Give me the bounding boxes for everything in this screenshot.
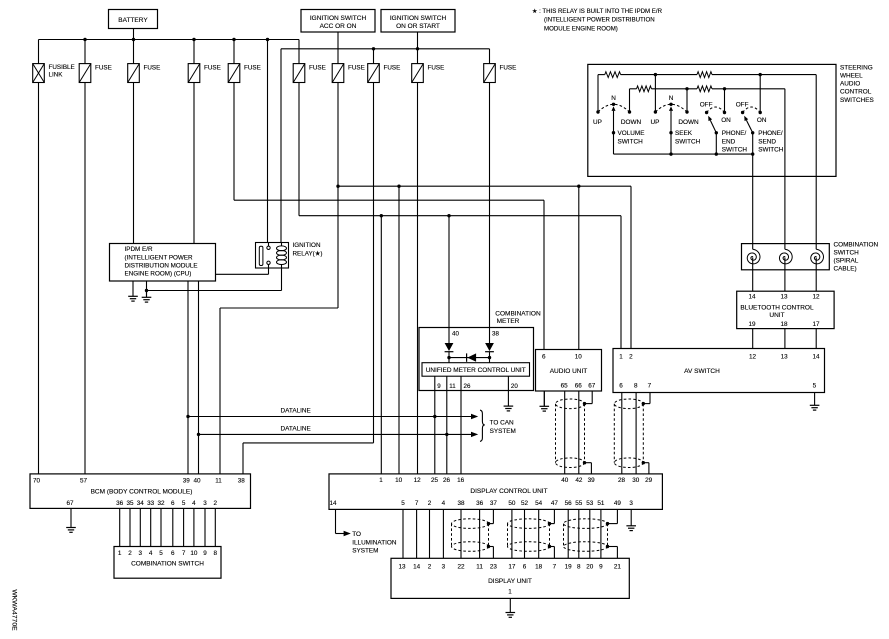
wire fuse F6 down: [298, 83, 300, 216]
wire row2 to phone-end ON: [724, 89, 726, 113]
ignition switch ACC box: [301, 10, 375, 33]
svg-text:DATALINE: DATALINE: [281, 426, 311, 433]
svg-text:2: 2: [629, 354, 633, 361]
svg-text:20: 20: [511, 383, 518, 390]
AV shield sides: [613, 404, 615, 463]
wire F7 feeder horizontal: [338, 185, 631, 187]
display unit box: [391, 558, 629, 598]
svg-text:53: 53: [586, 500, 594, 507]
shield cable 1 top ellipse: [452, 519, 489, 529]
svg-text:6: 6: [171, 550, 175, 557]
relay pin circle top: [267, 246, 270, 249]
svg-text:SWITCH: SWITCH: [834, 249, 860, 256]
node AV shield top: [642, 402, 645, 405]
wire spiral3 to bluetooth pin12: [815, 258, 817, 292]
wire row1 to seek up: [654, 75, 656, 112]
svg-text:(SPIRAL: (SPIRAL: [834, 257, 859, 264]
wire common down: [715, 133, 717, 154]
svg-text:DOWN: DOWN: [621, 119, 642, 126]
dataline1 arrow: [471, 414, 478, 419]
wire DCU49 to shield3: [616, 509, 618, 523]
svg-text:SYSTEM: SYSTEM: [490, 428, 516, 435]
svg-text:LINK: LINK: [49, 71, 64, 78]
svg-text:IGNITION: IGNITION: [293, 242, 321, 249]
svg-text:6: 6: [542, 354, 546, 361]
svg-text:42: 42: [575, 477, 583, 484]
svg-text:UP: UP: [593, 119, 602, 126]
diode D1: [445, 343, 454, 351]
svg-text:40: 40: [561, 477, 569, 484]
wire accbus to fuse F8: [373, 49, 375, 64]
svg-text:11: 11: [476, 563, 483, 570]
switch row2 wire: [630, 88, 637, 90]
fuse: [484, 64, 496, 83]
svg-text:28: 28: [618, 477, 626, 484]
bluetooth control unit box: [737, 291, 834, 328]
svg-text:8: 8: [634, 383, 638, 390]
svg-text:SWITCH: SWITCH: [722, 147, 748, 154]
wires DCU to display unit direct: [402, 509, 404, 558]
svg-text:70: 70: [33, 478, 41, 485]
wire diode2 down: [489, 352, 491, 363]
wire ignition ON to ACC bus: [417, 32, 419, 64]
wire F5 feeder horizontal: [234, 199, 544, 201]
combination meter box: [419, 328, 534, 391]
relay contact bar: [259, 246, 263, 265]
relay pin circle bottom: [267, 261, 270, 264]
svg-text:2: 2: [128, 550, 132, 557]
wire audio pin65 to DCU40: [564, 391, 566, 474]
wire ignition ACC to fuse F7: [337, 32, 339, 64]
wire fuse F7 down: [337, 83, 339, 309]
svg-text:6: 6: [523, 563, 527, 570]
wire meter pin26 to DCU16: [460, 376, 462, 474]
svg-text:AUDIO: AUDIO: [840, 81, 860, 88]
shield cable 3 top ellipse: [564, 519, 608, 529]
wire DCU47 to shield2: [553, 509, 555, 523]
svg-text:STEERING: STEERING: [840, 65, 873, 72]
ground audio: [540, 391, 550, 411]
audio shield bottom ellipse: [556, 458, 585, 468]
svg-text:40: 40: [452, 330, 459, 337]
unified meter control unit box: [422, 363, 530, 377]
wire bus to fuse F3: [133, 40, 135, 64]
svg-text:IGNITION SWITCH: IGNITION SWITCH: [310, 15, 367, 22]
svg-text:47: 47: [551, 500, 559, 507]
wire spiral2 to bluetooth pin13: [784, 258, 786, 292]
node row2-seekdown: [685, 87, 688, 90]
audio shield sides: [555, 404, 557, 463]
svg-text:30: 30: [632, 477, 640, 484]
svg-text:BATTERY: BATTERY: [118, 17, 148, 24]
node dataline2 meter11: [445, 433, 448, 436]
wire fuse F10 to meter pin38: [489, 83, 491, 328]
svg-text:7: 7: [415, 500, 419, 507]
wire feeder to display control pin10: [398, 186, 400, 474]
svg-text:8: 8: [214, 550, 218, 557]
wire fusible link to BCM pin70: [38, 83, 40, 474]
svg-text:TO CAN: TO CAN: [490, 420, 514, 427]
svg-text:6: 6: [171, 500, 175, 507]
diode D3 left-pointing: [467, 353, 476, 361]
svg-text:12: 12: [414, 477, 422, 484]
node audio shield bottom: [583, 461, 586, 464]
ground DCU pin3: [626, 509, 636, 530]
switch arm: [710, 120, 716, 133]
svg-text:12: 12: [749, 354, 757, 361]
wire bluetooth pin18 to AV pin13: [784, 329, 786, 349]
wire between diodes: [449, 357, 490, 359]
wire audio pin66 to DCU42: [578, 391, 580, 474]
svg-text:IGNITION SWITCH: IGNITION SWITCH: [390, 15, 447, 22]
svg-text:13: 13: [780, 294, 788, 301]
node row1-sendon: [759, 73, 762, 76]
wire row1 to volume up: [597, 75, 599, 112]
wire bus corner to fuse F6: [298, 40, 300, 64]
svg-text:PHONE/: PHONE/: [722, 130, 747, 137]
dashed arc: [598, 104, 630, 112]
spiral cable box: [742, 244, 830, 270]
svg-text:SEND: SEND: [758, 139, 776, 146]
svg-text:1: 1: [379, 477, 383, 484]
svg-text:FUSE: FUSE: [384, 64, 401, 71]
ground IPDM 1: [128, 281, 138, 301]
svg-text:14: 14: [413, 563, 421, 570]
svg-text:SYSTEM: SYSTEM: [352, 547, 378, 554]
svg-text:40: 40: [193, 478, 201, 485]
wire shield1 to display23: [489, 546, 494, 548]
resistor R2: [697, 72, 712, 78]
svg-text:67: 67: [66, 500, 74, 507]
svg-text:26: 26: [464, 383, 471, 390]
svg-text:36: 36: [476, 500, 484, 507]
ACC bus: [281, 48, 490, 50]
resistor R1: [605, 72, 621, 78]
node shield1 top: [487, 522, 490, 525]
svg-text:3: 3: [442, 563, 446, 570]
node row1-seekup: [654, 73, 657, 76]
wire down to BCM pin11: [219, 308, 221, 474]
svg-text:21: 21: [614, 563, 622, 570]
shield cable 2 top ellipse: [508, 519, 550, 529]
svg-text:PHONE/: PHONE/: [758, 130, 783, 137]
wire AV pin6 to DCU28: [621, 393, 623, 474]
BCM box: [30, 474, 251, 509]
wire row2 to seek down: [686, 89, 688, 112]
node bus-fuse5: [232, 38, 235, 41]
svg-text:SWITCH: SWITCH: [618, 139, 644, 146]
wire shield2 to display7: [550, 546, 555, 548]
dashed arc: [707, 107, 725, 113]
wire IPDM ground2 stem: [146, 281, 148, 297]
svg-text:FUSE: FUSE: [428, 64, 445, 71]
svg-text:37: 37: [490, 500, 498, 507]
wire bus to fusible link: [38, 40, 40, 64]
svg-text:BCM (BODY CONTROL MODULE): BCM (BODY CONTROL MODULE): [91, 488, 193, 495]
svg-text:FUSE: FUSE: [309, 64, 326, 71]
wire IPDM to BCM pin40: [198, 281, 200, 474]
wire DCU36 through shield1: [479, 509, 481, 558]
svg-text:1: 1: [118, 550, 122, 557]
shield cable 3 sides: [563, 524, 565, 547]
svg-text:39: 39: [588, 477, 596, 484]
wire AV shield to DCU29: [643, 462, 649, 464]
wire common bus to spiral1: [752, 154, 754, 249]
node diode1: [447, 356, 450, 359]
wire bluetooth pin17 to AV pin14: [815, 329, 817, 349]
svg-text:MODULE ENGINE ROOM): MODULE ENGINE ROOM): [544, 25, 618, 32]
svg-text:38: 38: [492, 330, 499, 337]
svg-text:10: 10: [395, 477, 403, 484]
svg-text:CONTROL: CONTROL: [840, 89, 872, 96]
fuse: [332, 64, 344, 83]
fuse: [79, 64, 91, 83]
svg-text:END: END: [722, 139, 736, 146]
svg-text:9: 9: [437, 383, 441, 390]
switch arm: [746, 120, 752, 133]
svg-text:38: 38: [238, 478, 246, 485]
svg-text:DISPLAY CONTROL UNIT: DISPLAY CONTROL UNIT: [470, 488, 547, 495]
svg-text:WKWA4770E: WKWA4770E: [11, 589, 18, 631]
svg-text:RELAY(★): RELAY(★): [293, 250, 323, 257]
svg-text:AUDIO UNIT: AUDIO UNIT: [550, 368, 588, 375]
svg-text:TO: TO: [352, 531, 361, 538]
svg-text:5: 5: [159, 550, 163, 557]
svg-text:3: 3: [203, 500, 207, 507]
wire meter pin38 to diode: [489, 328, 491, 344]
svg-text:2: 2: [428, 563, 432, 570]
svg-text:54: 54: [535, 500, 543, 507]
wire IPDM to relay horizontal: [216, 273, 269, 275]
SEEK SWITCH switch contacts: [654, 110, 657, 113]
svg-text:COMBINATION: COMBINATION: [495, 310, 541, 317]
node shield3 bottom: [606, 545, 609, 548]
node row2-endon: [723, 87, 726, 90]
dataline 2 wire: [199, 433, 472, 435]
wire feeder to audio unit pin6: [543, 200, 545, 349]
resistor R4: [697, 86, 712, 92]
svg-text:6: 6: [619, 383, 623, 390]
wire DCU pin14 illumination: [335, 509, 337, 533]
wire feeder to display control pin1: [380, 216, 382, 474]
svg-text:5: 5: [813, 383, 817, 390]
fuse: [188, 64, 200, 83]
node arm label: [612, 131, 615, 134]
svg-text:(INTELLIGENT POWER DISTRIBUTIO: (INTELLIGENT POWER DISTRIBUTION: [544, 17, 655, 24]
shield cable 2 bottom ellipse: [508, 542, 550, 552]
switch arm with arrow: [669, 106, 673, 111]
svg-text:OFF: OFF: [700, 102, 713, 109]
svg-text:14: 14: [748, 294, 756, 301]
node diode2: [488, 356, 491, 359]
svg-text:18: 18: [535, 563, 543, 570]
fuse: [128, 64, 140, 83]
node F7 branch: [336, 185, 339, 188]
svg-text:UP: UP: [650, 119, 659, 126]
wire row2 to volume down: [629, 89, 631, 112]
wire bus node to ignition relay contact: [267, 40, 269, 243]
svg-text:WHEEL: WHEEL: [840, 73, 863, 80]
svg-text:67: 67: [588, 383, 596, 390]
node arm common: [751, 131, 754, 134]
shield cable 1 sides: [451, 524, 453, 547]
spiral coil 2: [779, 249, 792, 264]
wire fuse F5 down: [233, 83, 235, 201]
svg-text:20: 20: [586, 563, 594, 570]
dashed arc: [655, 104, 687, 112]
svg-text:17: 17: [508, 563, 516, 570]
svg-text:N: N: [669, 95, 674, 102]
node bus-phone-end: [715, 152, 718, 155]
battery B1: [109, 10, 158, 29]
svg-text:IPDM E/R: IPDM E/R: [125, 246, 153, 253]
switch common bus: [614, 153, 753, 155]
ground meter pin20: [504, 391, 514, 411]
svg-text:5: 5: [182, 500, 186, 507]
wires BCM to combination switch: [119, 508, 121, 546]
svg-text:7: 7: [182, 550, 186, 557]
node bus-phone-send: [751, 152, 754, 155]
wire bus to fuse F4: [193, 40, 195, 64]
svg-text:10: 10: [575, 354, 583, 361]
svg-text:1: 1: [508, 589, 512, 596]
fuse: [228, 64, 240, 83]
phone switch END contacts: [705, 111, 708, 114]
switch arm with arrow: [612, 106, 616, 111]
svg-text:3: 3: [139, 550, 143, 557]
wire AV pin5 ground: [810, 393, 820, 411]
audio unit box: [536, 350, 602, 392]
CAN brace: [480, 410, 485, 441]
wire accbus to fuse F10: [489, 49, 491, 64]
svg-text:17: 17: [812, 321, 820, 328]
svg-text:33: 33: [147, 500, 155, 507]
svg-text:13: 13: [781, 354, 789, 361]
svg-text:2: 2: [428, 500, 432, 507]
wire AV pin8 to DCU30: [635, 393, 637, 474]
wire fuse F4 to IPDM: [193, 83, 195, 244]
svg-text:SWITCH: SWITCH: [758, 147, 784, 154]
wire audio pin67 shield: [591, 391, 593, 404]
fuse: [412, 64, 424, 83]
wire feeder to audio unit pin10: [578, 186, 580, 349]
illumination arrow: [344, 531, 351, 536]
wire relay coil return horizontal: [147, 290, 282, 292]
svg-text:4: 4: [442, 500, 446, 507]
spiral coil 3: [811, 249, 824, 264]
node dataline1 meter9: [433, 415, 436, 418]
svg-text:4: 4: [192, 500, 196, 507]
svg-text:35: 35: [126, 500, 134, 507]
svg-text:16: 16: [457, 477, 465, 484]
wire row1 to spiral3: [815, 75, 817, 250]
svg-text:51: 51: [597, 500, 605, 507]
svg-text:BLUETOOTH CONTROL: BLUETOOTH CONTROL: [740, 304, 814, 311]
svg-text:(INTELLIGENT POWER: (INTELLIGENT POWER: [125, 254, 194, 261]
node coil-ground junction: [145, 289, 148, 292]
svg-text:19: 19: [565, 563, 573, 570]
node feeder-DCU1: [380, 214, 383, 217]
wire meter pin20: [507, 376, 509, 390]
svg-text:22: 22: [457, 563, 465, 570]
svg-text:9: 9: [203, 550, 207, 557]
node feeder-meter40: [447, 214, 450, 217]
wire DCU38 through shield1: [460, 509, 462, 558]
wire audio shield to DCU39: [585, 462, 592, 464]
wire relay coil top stub: [281, 243, 283, 247]
IPDM E/R box U1: [110, 244, 216, 282]
wire IPDM to BCM pin39: [187, 281, 189, 474]
svg-text:32: 32: [157, 500, 165, 507]
node arm label: [669, 131, 672, 134]
resistor R3: [637, 86, 652, 92]
node dataline2 start: [197, 433, 200, 436]
svg-text:DISTRIBUTION MODULE: DISTRIBUTION MODULE: [125, 262, 198, 269]
svg-text:23: 23: [490, 563, 498, 570]
svg-text:7: 7: [553, 563, 557, 570]
svg-text:3: 3: [629, 500, 633, 507]
svg-text:65: 65: [561, 383, 569, 390]
node feeder-audio10: [577, 185, 580, 188]
svg-text:14: 14: [329, 500, 337, 507]
svg-text:VOLUME: VOLUME: [618, 130, 645, 137]
node shield2 top: [548, 522, 551, 525]
fuse: [368, 64, 380, 83]
svg-text:AV SWITCH: AV SWITCH: [684, 368, 720, 375]
wire meter pin9: [434, 376, 436, 474]
wire relay contact to IPDM: [268, 265, 270, 275]
node bus-relay: [266, 38, 269, 41]
wire feeder to AV switch pin1: [620, 216, 622, 349]
wire relay top pin stub: [268, 243, 270, 247]
svg-text:56: 56: [565, 500, 573, 507]
node bus-battery: [132, 38, 135, 41]
battery bus: [39, 39, 300, 41]
node bus-seek: [669, 152, 672, 155]
svg-text:ON: ON: [757, 117, 767, 124]
AV switch box: [613, 349, 825, 393]
node dataline1 start: [186, 415, 189, 418]
node arm common: [715, 131, 718, 134]
wire battery to bus: [133, 29, 135, 40]
wire accbus to relay coil: [280, 49, 282, 243]
wire F6 feeder horizontal: [299, 215, 621, 217]
combination switch box: [114, 547, 221, 579]
svg-text:18: 18: [780, 321, 788, 328]
svg-text:COMBINATION: COMBINATION: [834, 241, 879, 248]
svg-text:13: 13: [398, 563, 406, 570]
svg-text:34: 34: [137, 500, 145, 507]
fusible link FL: [33, 64, 45, 83]
node AV shield bottom: [642, 461, 645, 464]
shield cable 2 sides: [507, 524, 509, 547]
AV shield cable top ellipse: [614, 399, 643, 409]
svg-text:11: 11: [449, 383, 456, 390]
phone switch SEND contacts: [741, 111, 744, 114]
svg-text:25: 25: [431, 477, 439, 484]
wire fuse F8 down: [373, 83, 375, 443]
wire down to BCM pin38: [242, 443, 244, 474]
wire feeder to meter pin40: [448, 216, 450, 328]
svg-text:10: 10: [190, 550, 198, 557]
AV shield bottom ellipse: [614, 458, 643, 468]
shield cable 3 bottom ellipse: [564, 542, 608, 552]
wire F8 horizontal to BCM38: [243, 442, 374, 444]
svg-text:METER: METER: [497, 318, 520, 325]
dataline2 arrow: [471, 432, 478, 437]
wire fuse F9 to display control pin12: [417, 83, 419, 474]
svg-text:FUSE: FUSE: [144, 64, 161, 71]
